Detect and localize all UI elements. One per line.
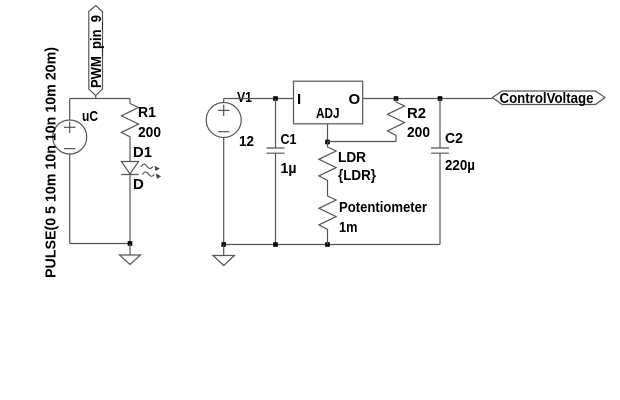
wire: PWM flag stem xyxy=(95,96,97,99)
junction: ADJ node xyxy=(325,140,330,145)
resistor R2 xyxy=(387,99,404,142)
junction: C2 top xyxy=(438,96,443,101)
wire: ADJ pin lead xyxy=(327,124,329,142)
regulator U1 box xyxy=(294,81,363,124)
wire: V1 to regulator input xyxy=(224,98,294,100)
resistor Potentiometer xyxy=(319,196,336,233)
svg-text:C1: C1 xyxy=(281,131,297,148)
ground (left circuit) xyxy=(120,244,141,265)
diode D1 xyxy=(121,162,161,179)
svg-text:C2: C2 xyxy=(445,130,463,147)
wire: middle bottom rail xyxy=(224,244,440,246)
wire: uC top lead xyxy=(69,99,71,121)
svg-text:R1: R1 xyxy=(138,104,156,121)
svg-text:PULSE(0 5 10m 10n 10n 10m 20m): PULSE(0 5 10m 10n 10n 10m 20m) xyxy=(43,47,60,278)
wire: uC bottom lead xyxy=(69,154,71,244)
svg-text:Potentiometer: Potentiometer xyxy=(339,199,427,216)
wire: R1 to D1 xyxy=(129,140,131,162)
junction: C1 top xyxy=(273,96,278,101)
voltage source uC xyxy=(53,120,87,154)
svg-text:220µ: 220µ xyxy=(445,157,475,174)
junction: left bottom node xyxy=(128,241,133,246)
wire: D1 to left bottom rail xyxy=(129,175,131,244)
svg-text:ControlVoltage: ControlVoltage xyxy=(500,90,594,107)
wire: V1 top lead xyxy=(223,99,225,103)
wire: left top rail xyxy=(70,98,130,100)
voltage source V1 xyxy=(206,103,241,138)
wire: potentiometer to bottom rail xyxy=(327,233,329,245)
svg-text:ADJ: ADJ xyxy=(316,105,340,122)
svg-text:1µ: 1µ xyxy=(281,160,297,177)
svg-text:{LDR}: {LDR} xyxy=(338,167,376,184)
wire: regulator output rail xyxy=(363,98,493,100)
capacitor C2 xyxy=(431,99,449,245)
svg-text:12: 12 xyxy=(239,133,254,150)
wire: V1 bottom lead xyxy=(223,138,225,245)
wire: LDR to potentiometer xyxy=(327,184,329,196)
junction: V1 bottom xyxy=(221,242,226,247)
svg-text:D: D xyxy=(133,176,144,193)
resistor R1 xyxy=(121,99,138,141)
junction: potentiometer bottom xyxy=(325,242,330,247)
svg-text:V1: V1 xyxy=(237,89,252,106)
svg-text:uC: uC xyxy=(82,108,98,125)
svg-text:O: O xyxy=(349,91,361,108)
svg-text:D1: D1 xyxy=(133,144,152,161)
net flag PWM_pin_9 xyxy=(88,6,105,96)
svg-text:I: I xyxy=(297,91,301,108)
svg-text:200: 200 xyxy=(138,124,161,141)
svg-text:PWM_pin_9: PWM_pin_9 xyxy=(88,15,105,88)
svg-text:LDR: LDR xyxy=(338,149,366,166)
wire: left bottom rail xyxy=(70,243,130,245)
svg-text:200: 200 xyxy=(407,124,430,141)
wire: ADJ to R2 bottom xyxy=(328,141,397,143)
capacitor C1 xyxy=(267,99,285,245)
ground (V1) xyxy=(213,245,234,266)
svg-text:R2: R2 xyxy=(407,105,426,122)
svg-text:1m: 1m xyxy=(339,219,358,236)
junction: R2 top xyxy=(394,96,399,101)
junction: C1 bottom xyxy=(273,242,278,247)
net flag ControlVoltage xyxy=(493,90,606,107)
resistor LDR xyxy=(319,142,336,184)
